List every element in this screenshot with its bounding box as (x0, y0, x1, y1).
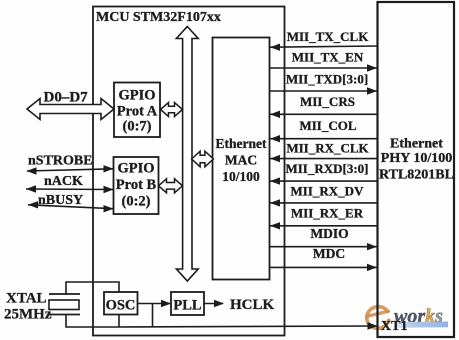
MII_RXD[3:0] wire (270, 161, 378, 185)
Ethernet MAC block (213, 38, 270, 280)
svg-text:MAC: MAC (225, 153, 257, 168)
crystal Y1 (4, 291, 80, 323)
svg-text:GPIO: GPIO (117, 161, 154, 177)
svg-text:XTAL: XTAL (6, 291, 47, 307)
MII_TX_CLK wire (270, 29, 378, 51)
svg-text:GPIO: GPIO (118, 88, 155, 104)
svg-text:MDIO: MDIO (310, 226, 348, 241)
MII_TX_EN wire (270, 50, 378, 72)
svg-text:25MHz: 25MHz (4, 307, 52, 323)
MDIO wire (270, 226, 378, 250)
clock wire to PHY XT1 (119, 322, 378, 329)
bus to MAC arrow (192, 151, 214, 167)
eworks watermark logo (367, 306, 448, 329)
clock branch to PHY XT1 rail (152, 304, 154, 328)
svg-text:Prot A: Prot A (117, 104, 158, 120)
svg-text:MII_RX_CLK: MII_RX_CLK (286, 141, 369, 156)
MII_TXD[3:0] wire (270, 72, 378, 95)
svg-text:nSTROBE: nSTROBE (28, 154, 93, 169)
Ethernet PHY block (378, 2, 455, 337)
svg-text:MCU STM32F107xx: MCU STM32F107xx (96, 10, 221, 25)
svg-text:XT1: XT1 (381, 319, 407, 334)
svg-text:MII_RXD[3:0]: MII_RXD[3:0] (285, 161, 368, 176)
svg-text:HCLK: HCLK (230, 297, 275, 313)
MII_CRS wire (270, 94, 378, 118)
PLL to HCLK wire (204, 300, 224, 307)
svg-text:Ethernet: Ethernet (216, 136, 267, 151)
svg-text:nACK: nACK (44, 174, 83, 189)
svg-text:Prot B: Prot B (116, 177, 157, 193)
svg-text:PLL: PLL (173, 298, 202, 314)
MII_RX_ER wire (270, 206, 378, 230)
svg-text:MII_CRS: MII_CRS (300, 94, 355, 109)
crystal bottom wire (66, 315, 119, 328)
svg-text:MII_RX_ER: MII_RX_ER (291, 206, 364, 221)
OSC bottom stub (118, 315, 120, 328)
MII_RX_CLK wire (270, 141, 378, 163)
svg-text:MII_TX_CLK: MII_TX_CLK (287, 29, 370, 44)
svg-text:10/100: 10/100 (222, 169, 260, 184)
svg-text:MII_COL: MII_COL (299, 118, 356, 133)
svg-text:OSC: OSC (106, 298, 136, 314)
crystal top wire to OSC (66, 282, 119, 294)
OSC block (104, 292, 138, 315)
nSTROBE wire (27, 154, 114, 175)
OSC to PLL wire (138, 300, 172, 307)
svg-text:MII_RX_DV: MII_RX_DV (291, 184, 365, 199)
svg-text:(0:7): (0:7) (123, 119, 152, 135)
svg-text:nBUSY: nBUSY (38, 193, 83, 208)
internal bus arrow (vertical) (176, 27, 198, 282)
nBUSY wire (28, 193, 114, 212)
D0-D7 bus arrow (27, 99, 114, 120)
GPIO Port A block (114, 83, 160, 138)
svg-text:MII_TX_EN: MII_TX_EN (292, 50, 364, 65)
svg-text:MDC: MDC (313, 246, 345, 261)
svg-text:RTL8201BL: RTL8201BL (379, 168, 454, 183)
MII_RX_DV wire (270, 184, 378, 207)
svg-text:Ethernet: Ethernet (390, 137, 443, 152)
MCU U1 box (93, 7, 285, 336)
svg-text:(0:2): (0:2) (122, 194, 151, 210)
GPIO B to bus arrow (159, 179, 183, 193)
svg-text:MII_TXD[3:0]: MII_TXD[3:0] (286, 72, 368, 87)
MDC wire (270, 246, 378, 271)
GPIO Port B block (114, 157, 159, 214)
svg-text:D0–D7: D0–D7 (44, 90, 89, 106)
MII_COL wire (270, 118, 378, 142)
PLL block (171, 292, 204, 315)
svg-text:PHY 10/100: PHY 10/100 (381, 151, 452, 166)
GPIO A to bus arrow (161, 103, 183, 117)
nACK wire (26, 174, 114, 193)
